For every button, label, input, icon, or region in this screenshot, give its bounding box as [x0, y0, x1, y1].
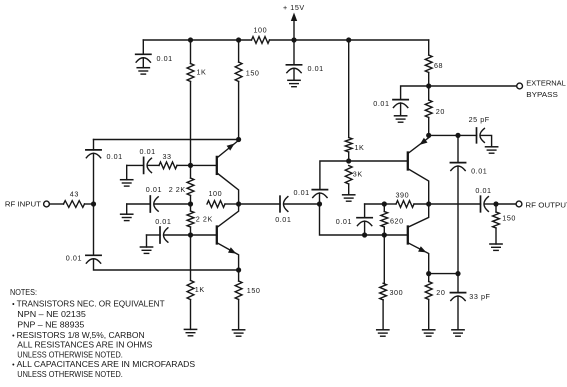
wire 2.2K lower to bottom bias node [190, 227, 192, 235]
arrowhead +15V supply arrow [291, 13, 297, 22]
svg-text:ALL CAPACITANCES ARE IN MICROF: ALL CAPACITANCES ARE IN MICROFARADS [17, 360, 196, 369]
capacitor 0.01 (output coupling) [481, 196, 489, 212]
svg-text:43: 43 [70, 190, 79, 199]
arrowhead Q3 emitter (PNP, toward base) [420, 138, 428, 145]
wire top supply rail (left section) [143, 39, 251, 41]
svg-text:1K: 1K [195, 285, 205, 294]
resistor 43 (input series) [64, 201, 85, 208]
junction Q1 emitter node [236, 137, 241, 142]
junction top rail / 1K stage-1 [188, 37, 193, 42]
wire input terminal to 43 [49, 203, 63, 205]
svg-text:3K: 3K [353, 170, 363, 179]
resistor 150 (output load) [493, 212, 500, 228]
wire 0.01 cap to base row [364, 221, 366, 235]
wire stage-2 1K top lead [348, 40, 350, 138]
wire output 150 to ground [495, 228, 497, 244]
wire input node down + right (Q4 base row) [320, 204, 407, 235]
wire cap to ground stub [142, 58, 144, 68]
ground (+15V bypass cap) [288, 80, 300, 86]
resistor 1K (stage-1 bias feed) [187, 64, 194, 82]
capacitor 0.01 (rail decoupling, top-left) [136, 54, 151, 62]
arrowhead Q2 emitter [228, 247, 236, 253]
svg-text:2 2K: 2 2K [169, 185, 186, 194]
svg-text:0.01: 0.01 [471, 166, 487, 175]
wire Q1 collector lead (down to center) [218, 174, 239, 204]
wire 390 left stub [384, 203, 396, 205]
ground (output 150) [490, 244, 502, 250]
ground (bias 1K) [184, 329, 196, 335]
svg-text:33 pF: 33 pF [469, 292, 490, 301]
ground (stage-1 150) [233, 330, 245, 336]
svg-text:620: 620 [390, 216, 404, 225]
svg-text:NOTES:: NOTES: [10, 288, 37, 297]
wire Q4 collector lead (up) [409, 204, 429, 227]
svg-text:25 pF: 25 pF [469, 115, 490, 124]
svg-text:0.01: 0.01 [275, 215, 291, 224]
svg-text:20: 20 [436, 288, 445, 297]
wire 0.01 top stub [364, 204, 366, 218]
wire 33pF to ground [457, 296, 459, 330]
capacitor 0.01 (mid bias bypass) [150, 196, 158, 212]
wire 300 top lead [383, 235, 385, 283]
svg-text:1K: 1K [355, 143, 365, 152]
junction Q2 emitter node (bottom rail) [236, 267, 241, 272]
resistor 1K (bias chain to ground) [187, 280, 194, 299]
svg-text:0.01: 0.01 [157, 54, 173, 63]
wire 150 bottom lead [238, 270, 240, 281]
wire 300 to ground [382, 300, 384, 330]
svg-text:UNLESS OTHERWISE NOTED.: UNLESS OTHERWISE NOTED. [17, 351, 123, 360]
resistor 300 [380, 283, 387, 300]
transistor Q2 base bar [216, 227, 218, 244]
capacitor 0.01 (+15V bypass) [286, 65, 301, 73]
wire 20 lower top lead [428, 274, 430, 282]
svg-text:0.01: 0.01 [475, 186, 491, 195]
resistor 100 (stage-1 emitter coupling) [207, 201, 225, 208]
wire bias bottom down across rail to 1K [190, 235, 192, 280]
node stage-2 input [317, 201, 322, 206]
wire 620 top stub [383, 204, 385, 212]
wire input column (cap to input node) [93, 153, 95, 204]
arrowhead Q1 emitter (pointing to node) [227, 144, 235, 151]
wire 3K to ground [348, 184, 350, 195]
svg-text:RESISTORS 1/8 W,5%, CARBON: RESISTORS 1/8 W,5%, CARBON [17, 331, 145, 340]
svg-text:0.01: 0.01 [146, 185, 162, 194]
junction 0.01 column / base row [362, 232, 367, 237]
wire Q2 base lead [191, 234, 216, 236]
wire feedback line (top, to Q1 emitter node) [94, 139, 239, 141]
junction output node [493, 201, 498, 206]
resistor 1K (stage-2 divider) [345, 138, 352, 153]
wire bypass node to 0.01 cap [401, 86, 429, 100]
wire bias node to 2.2K upper [190, 165, 192, 178]
arrowhead Q4 emitter [418, 246, 426, 252]
resistor 20 (lower) [425, 282, 432, 300]
wire 390 to stage-2 center node [414, 203, 429, 205]
wire 1K stage-1 top lead [190, 40, 192, 64]
wire branch-2 cap to mid node [154, 203, 190, 205]
junction top rail / 1K stage-2 [346, 37, 351, 42]
resistor 33 (Q1 base) [159, 162, 177, 169]
wire Q4 emitter lead (down) [409, 243, 429, 273]
wire 20 lower to ground [428, 300, 430, 330]
ground (branch-3 bypass cap) [140, 247, 152, 253]
svg-text:RF INPUT: RF INPUT [5, 200, 42, 209]
svg-text:150: 150 [502, 214, 516, 223]
svg-text:2 2K: 2 2K [196, 215, 213, 224]
ground (ext bypass cap) [395, 116, 407, 122]
resistor 150 (stage-1 load) [235, 62, 242, 82]
junction 620-300 / base row [382, 232, 387, 237]
wire output 150 top lead [495, 204, 497, 212]
wire +15V lead [293, 20, 295, 40]
svg-text:390: 390 [396, 190, 410, 199]
wire input column upper stub [93, 140, 95, 150]
capacitor 0.01 (input column, upper) [86, 150, 101, 158]
junction Q4 emitter node [426, 271, 431, 276]
wire external bypass line [429, 85, 517, 87]
junction right column bottom [455, 271, 460, 276]
wire rail to decoupling cap C 0.01 [142, 40, 144, 54]
wire 1K to divider node [348, 152, 350, 161]
svg-text:0.01: 0.01 [107, 152, 123, 161]
wire branch-2 ground stub [126, 204, 128, 214]
svg-text:100: 100 [254, 26, 268, 35]
wire Q2 collector lead (up to center) [218, 204, 239, 227]
resistor 620 [381, 212, 388, 228]
capacitor 0.01 (interstage coupling) [280, 196, 288, 212]
wire 1K bottom to bias chain [190, 82, 192, 166]
resistor 20 (upper) [425, 100, 432, 118]
svg-text:ALL RESISTANCES ARE IN OHMS: ALL RESISTANCES ARE IN OHMS [17, 341, 153, 350]
svg-text:NPN – NE 02135: NPN – NE 02135 [17, 310, 86, 319]
svg-text:EXTERNAL: EXTERNAL [526, 78, 566, 87]
wire output cap to output node [485, 203, 497, 205]
wire corner 620 node to 0.01 cap top [365, 203, 385, 205]
svg-text:+ 15V: + 15V [283, 3, 305, 12]
junction bias chain top (Q1 base node) [188, 163, 193, 168]
wire Q3 collector lead (down) [409, 169, 429, 204]
junction top rail / 150 stage-1 [236, 37, 241, 42]
ground (top-left decoupling cap) [137, 68, 149, 74]
svg-text:0.01: 0.01 [155, 217, 171, 226]
terminal RF INPUT [44, 201, 50, 207]
wire divider cap to input node [319, 193, 321, 204]
wire rail corner down to 68 [428, 40, 430, 55]
wire right column upper stub [457, 135, 459, 162]
transistor Q3 base bar [407, 153, 409, 170]
capacitor 33 pF [450, 293, 465, 301]
svg-text:•: • [12, 362, 15, 369]
wire 43 to input node [85, 203, 94, 205]
wire mid node to 2.2K lower [190, 204, 192, 211]
capacitor 25 pF [477, 128, 485, 143]
svg-text:0.01: 0.01 [308, 64, 324, 73]
resistor 3K (stage-2 divider) [345, 166, 352, 185]
resistor 150 (stage-1 emitter) [235, 281, 242, 300]
wire 2.2K upper to mid node [190, 196, 192, 205]
svg-text:0.01: 0.01 [66, 253, 82, 262]
svg-text:300: 300 [390, 288, 404, 297]
wire 150 to ground (bottom) [238, 300, 240, 330]
wire Q3 emitter node to right column [429, 134, 458, 136]
wire 33 to bias node [177, 164, 191, 166]
svg-text:68: 68 [434, 61, 443, 70]
wire branch-3 ground to cap [147, 234, 161, 236]
capacitor 0.01 (divider to input node) [312, 190, 327, 198]
svg-text:BYPASS: BYPASS [526, 90, 558, 99]
junction stage-2 divider node [346, 158, 351, 163]
wire stage-2 center to output cap [429, 203, 481, 205]
wire branch-1 ground to cap [127, 164, 144, 166]
capacitor 0.01 (Q1 base branch) [144, 157, 152, 173]
svg-text:•: • [12, 302, 15, 309]
svg-text:1K: 1K [197, 68, 207, 77]
wire branch-3 cap to bias bottom node [164, 234, 191, 236]
wire 33pF top lead [457, 274, 459, 293]
wire 100 to center node [225, 203, 239, 205]
wire 150 bottom to Q1 emitter node [238, 82, 240, 140]
svg-text:UNLESS OTHERWISE NOTED.: UNLESS OTHERWISE NOTED. [17, 370, 123, 379]
svg-text:20: 20 [436, 107, 445, 116]
transistor Q4 base bar [407, 227, 409, 244]
svg-text:0.01: 0.01 [140, 147, 156, 156]
wire Q3 emitter lead (up) [409, 135, 429, 152]
wire Q2 emitter lead (down to rail) [218, 243, 239, 270]
ground (3K) [343, 195, 355, 201]
junction 390/620 node [382, 201, 387, 206]
junction +15V node [291, 37, 296, 42]
terminal RF OUTPUT [516, 201, 522, 207]
wire bypass node to 20 [428, 86, 430, 100]
svg-text:PNP – NE 88935: PNP – NE 88935 [17, 321, 84, 330]
node input (node A) [91, 201, 96, 206]
wire branch-1 cap to 33 [148, 164, 160, 166]
resistor 68 [425, 55, 432, 73]
junction stage-2 center node [426, 201, 431, 206]
junction external bypass node [426, 83, 431, 88]
junction bias chain middle [188, 201, 193, 206]
svg-text:0.01: 0.01 [373, 99, 389, 108]
junction right column top [455, 133, 460, 138]
terminal EXTERNAL BYPASS [517, 83, 523, 89]
wire Q4 emitter row [429, 273, 458, 275]
transistor Q1 base bar [216, 157, 218, 174]
resistor 390 [396, 201, 414, 208]
wire output node to terminal [496, 203, 516, 205]
ground (33 pF) [452, 330, 464, 336]
wire branch-3 ground stub [146, 235, 148, 247]
wire coupling cap to stage-2 input node [284, 203, 320, 205]
wire 25pF to ground stub [481, 135, 492, 146]
capacitor 0.01 (right column) [450, 163, 465, 171]
svg-text:0.01: 0.01 [294, 188, 310, 197]
wire Q1 base lead [191, 164, 216, 166]
wire lower cap to bottom feedback rail [94, 259, 239, 270]
svg-text:TRANSISTORS NEC. OR EQUIVALENT: TRANSISTORS NEC. OR EQUIVALENT [17, 300, 165, 309]
wire 1K to ground [190, 300, 192, 330]
wire top supply rail (right section) [270, 39, 429, 41]
wire +15V node to bypass cap [293, 40, 295, 65]
svg-text:150: 150 [246, 69, 260, 78]
wire divider node left + down to cap [320, 161, 349, 190]
svg-text:150: 150 [247, 286, 261, 295]
resistor 2.2K (lower bias) [187, 211, 194, 227]
wire 150 stage-1 top lead [238, 40, 240, 62]
junction stage-1 center node [236, 201, 241, 206]
wire 68 to bypass node [428, 73, 430, 87]
capacitor 0.01 (input column, lower) [86, 255, 101, 263]
wire ext bypass cap to ground [400, 103, 402, 116]
svg-text:0.01: 0.01 [336, 217, 352, 226]
svg-text:100: 100 [209, 189, 223, 198]
ground (300) [377, 330, 389, 336]
svg-text:33: 33 [163, 152, 172, 161]
wire branch-1 ground stub [126, 165, 128, 179]
wire right column to 25pF [458, 134, 477, 136]
wire bypass cap to ground [293, 68, 295, 80]
wire 620 bottom stub [383, 227, 385, 235]
wire Q1 emitter lead (up to node) [218, 140, 239, 157]
wire branch-2 ground to cap [127, 203, 151, 205]
resistor 2.2K (upper bias) [187, 178, 194, 196]
ground (20 lower) [423, 330, 435, 336]
ground (25 pF) [486, 147, 498, 153]
wire 20 to Q3 emitter node [428, 118, 430, 136]
wire stage-1 out to coupling cap [239, 203, 280, 205]
ground (branch-2 bypass cap) [121, 214, 133, 220]
resistor 100 (supply decoupling, top rail) [252, 37, 270, 44]
junction Q3 emitter node [426, 133, 431, 138]
wire input node down to lower cap [93, 204, 95, 255]
capacitor 0.01 (external bypass) [393, 100, 408, 108]
wire Q3 base lead [349, 160, 407, 162]
ground (branch-1 bypass cap) [121, 180, 133, 186]
wire right column cap down across output row [457, 166, 459, 274]
svg-text:•: • [12, 333, 15, 340]
junction bias chain bottom (Q2 base node) [188, 232, 193, 237]
svg-text:RF OUTPUT: RF OUTPUT [525, 200, 567, 209]
capacitor 0.01 (Q2 base branch) [160, 227, 168, 243]
capacitor 0.01 (Q4 base to 390 node) [357, 218, 372, 226]
